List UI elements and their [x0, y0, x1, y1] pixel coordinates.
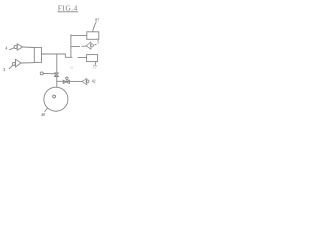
svg-text:42: 42 — [92, 79, 96, 83]
svg-text:5: 5 — [97, 40, 99, 45]
svg-text:40: 40 — [41, 112, 45, 117]
svg-text:87: 87 — [95, 17, 99, 22]
svg-text:FIG.4: FIG.4 — [58, 4, 78, 13]
svg-text:77: 77 — [93, 65, 97, 70]
svg-text:16: 16 — [70, 66, 74, 70]
